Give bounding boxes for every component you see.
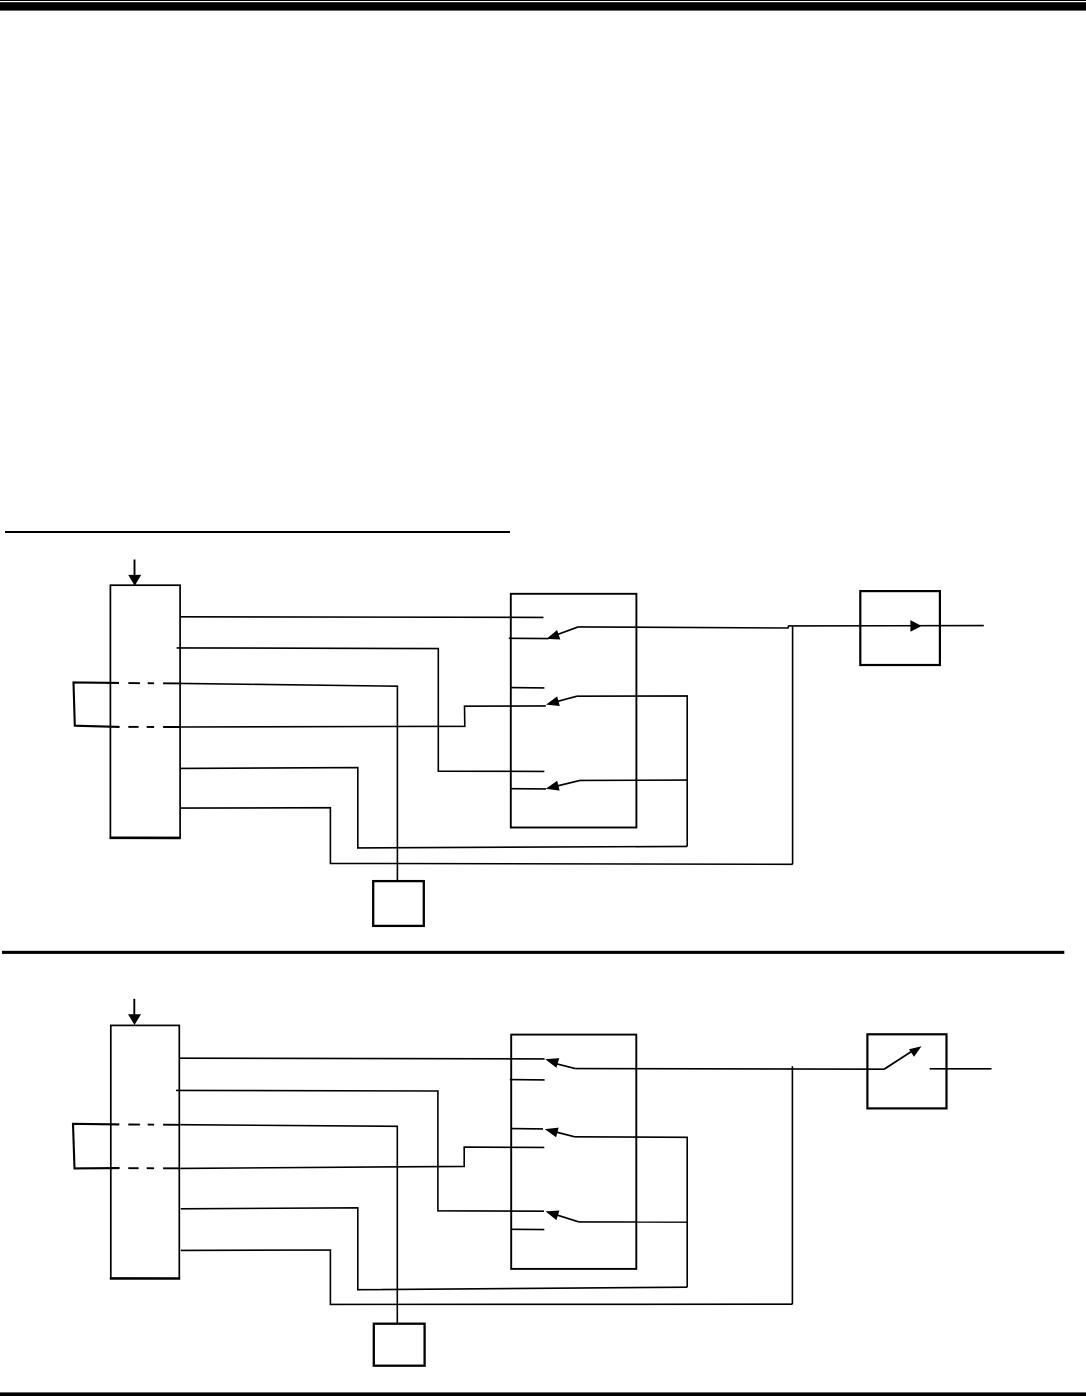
harness dashed lines (diagram 2) — [128, 1125, 179, 1169]
wire: switch 1 output through relay (diagram 1) — [578, 626, 984, 628]
wire: switch 2 output riser (diagram 2) — [575, 1137, 688, 1287]
top border line — [0, 0, 1086, 1]
wire: pin 1 to switch contact (diagram 2) — [180, 1057, 545, 1060]
switch 3 wiper arrow (diagram 2) — [546, 1211, 579, 1222]
wire: pin 6 loop (diagram 2) — [181, 1250, 793, 1304]
wire: switch 3 output (diagram 2) — [579, 1221, 687, 1223]
wire: feedback riser (diagram 1) — [792, 626, 794, 864]
control module block (diagram 2) — [110, 1025, 180, 1278]
motor box (diagram 2) — [867, 1034, 946, 1108]
switch 2 fixed contact (diagram 2) — [511, 1128, 543, 1130]
wiring connector (diagram 1) — [74, 682, 120, 727]
harness dashed lines (diagram 1) — [128, 683, 179, 727]
ground box (diagram 2) — [374, 1324, 425, 1366]
wire: pin 6 loop (diagram 1) — [181, 808, 793, 865]
switch unit block (diagram 2) — [511, 1035, 636, 1269]
wire: feedback riser (diagram 2) — [791, 1066, 793, 1304]
wire: pin 4 stepped (diagram 2) — [180, 1147, 544, 1168]
switch 2 fixed contact (diagram 1) — [511, 687, 545, 689]
relay box (diagram 1) — [860, 591, 940, 665]
wire: output line (diagram 2) — [930, 1068, 992, 1070]
open switch lever (diagram 2) — [884, 1046, 921, 1069]
heading underline — [5, 531, 510, 533]
section divider — [2, 951, 1064, 954]
wire: pin 2 riser to contact A3 (diagram 1) — [177, 648, 545, 772]
switch 3 wiper arrow (diagram 1) — [546, 780, 580, 790]
wire: pin 2 riser to contact A3 (diagram 2) — [176, 1090, 544, 1211]
wire: switch 1 output (diagram 2) — [575, 1068, 884, 1071]
wire: switch 3 output (diagram 1) — [580, 779, 687, 781]
switch 2 wiper arrow (diagram 1) — [546, 696, 577, 706]
switch unit block (diagram 1) — [511, 594, 637, 828]
input arrow (diagram 2) — [128, 999, 141, 1025]
ground box (diagram 1) — [373, 881, 424, 926]
switch 2 wiper arrow (diagram 2) — [545, 1128, 575, 1138]
wire: pin 4 stepped to contact B2 (diagram 1) — [180, 706, 546, 727]
input arrow (diagram 1) — [128, 560, 141, 586]
wire: pin 3 to ground box (diagram 2) — [180, 1125, 397, 1324]
switch 3 fixed contact (diagram 1) — [511, 788, 546, 790]
wiring connector (diagram 2) — [73, 1124, 120, 1169]
wire: switch 2 output riser (diagram 1) — [577, 696, 687, 847]
switch 1 fixed contact (diagram 1) — [509, 637, 549, 639]
switch 1 wiper arrow (diagram 1) — [546, 627, 578, 640]
top header bar — [0, 2, 1086, 10]
relay arrow (diagram 1) — [910, 620, 921, 632]
wire: pin 5 loop (diagram 1) — [181, 768, 687, 848]
switch 3 fixed contact (diagram 2) — [511, 1228, 544, 1230]
control module block (diagram 1) — [109, 585, 180, 838]
wire: pin 5 loop (diagram 2) — [181, 1208, 687, 1290]
switch 1 wiper arrow (diagram 2) — [545, 1058, 575, 1069]
switch 1 fixed contact (diagram 2) — [510, 1079, 545, 1081]
bottom border bar — [0, 1392, 1086, 1396]
wire: pin 1 to switch contact (diagram 1) — [181, 616, 544, 619]
wire: pin 3 to ground box (diagram 1) — [180, 683, 397, 881]
